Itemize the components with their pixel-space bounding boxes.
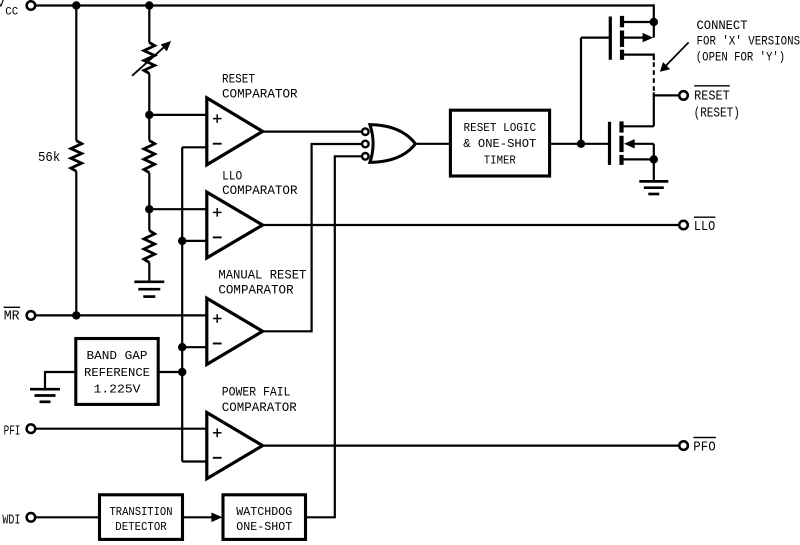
svg-text:56k: 56k [38,150,60,166]
svg-text:POWER FAIL: POWER FAIL [222,384,291,399]
wire LLO- stub [182,240,207,242]
svg-text:CONNECT: CONNECT [697,18,748,33]
junction LLO- [178,237,186,245]
gate U5 input bubble 2 [362,141,369,148]
svg-text:MANUAL RESET: MANUAL RESET [218,267,306,282]
wire tap1 to RESET+ [149,114,207,116]
plus sign LLO comparator [213,211,222,213]
annotation arrow [664,42,689,67]
wire RESET output [654,92,679,95]
wire tap2 to LLO+ [149,208,207,210]
block band gap reference [76,339,158,405]
resistor 56k [71,141,82,172]
terminal VCC [27,1,36,10]
wire timer output [550,143,582,145]
wire R3 to ground [148,262,150,281]
wire bandgap output [158,371,182,373]
svg-text:WATCHDOG: WATCHDOG [236,505,292,519]
terminal RESET [679,91,688,100]
wire divider top [148,4,150,42]
plus sign POWER FAIL comparator [213,432,222,434]
wire LLO output [263,224,680,226]
transistor Q1 drain lead [624,21,654,23]
svg-text:RESET LOGIC: RESET LOGIC [464,121,537,135]
wire MR- stub [182,346,207,348]
minus sign POWER FAIL comparator [213,457,222,459]
wire gate output [415,143,449,145]
wire MANUAL RESET output [263,144,362,331]
junction rail-56k [72,1,80,9]
junction MR- [178,343,186,351]
transistor Q2 source lead [624,158,654,160]
terminal MR [27,311,36,320]
minus sign RESET comparator [213,143,222,145]
label PFO overline [693,437,716,439]
wire watchdog output [306,156,362,517]
ground bandgap [30,388,60,391]
wire WDI [36,516,100,518]
wire R2 to tap2 [148,173,150,231]
terminal PFO [679,441,688,450]
svg-text:REFERENCE: REFERENCE [84,366,150,380]
wire RESET node to Q2 drain [653,95,655,126]
svg-text:BAND GAP: BAND GAP [87,349,148,363]
arrow of variable resistor [132,46,166,76]
junction tap1 [145,111,153,119]
label MR overline [4,306,20,308]
wire RESET comparator to gate [263,131,362,133]
op-amp LLO comparator [207,192,263,258]
junction tap2 [145,205,153,213]
svg-text:COMPARATOR: COMPARATOR [222,400,297,415]
transistor Q2 NMOS channel bar [619,121,623,132]
label LLO overline [694,216,715,218]
dashed link for X versions [653,62,655,92]
svg-text:V: V [0,0,5,12]
ground divider [134,280,164,283]
transistor Q2 drain lead [624,125,654,127]
wire gate drive vertical [580,38,582,144]
transistor Q1 body lead with arrow [624,36,646,38]
svg-text:CC: CC [5,6,19,18]
svg-text:COMPARATOR: COMPARATOR [222,183,298,198]
svg-text:LLO: LLO [694,219,715,235]
svg-text:PFO: PFO [693,439,715,455]
svg-text:1.225V: 1.225V [94,383,142,397]
svg-text:COMPARATOR: COMPARATOR [222,87,298,102]
wire PFI [36,428,207,430]
wire MR [36,314,207,316]
plus sign RESET comparator [213,118,222,120]
plus sign MANUAL RESET comparator [213,318,222,320]
resistor R3 [144,231,155,263]
svg-text:COMPARATOR: COMPARATOR [218,283,293,298]
op-amp POWER FAIL comparator [207,413,263,479]
wire Q2 source to ground [653,159,655,181]
gate U5 input bubble 1 [362,128,369,135]
wire NMOS gate lead [581,143,610,145]
wire R1 to tap1 [148,74,150,141]
resistor R2 [144,141,155,173]
op-amp RESET comparator [207,98,263,165]
junction Q2 source [650,155,658,163]
terminal WDI [27,513,36,522]
transistor Q2 body lead with arrow [631,143,654,145]
svg-text:LLO: LLO [222,168,242,183]
wire PMOS gate lead [581,36,610,38]
wire VCC to Q1 [653,4,655,37]
svg-text:TIMER: TIMER [484,154,517,168]
terminal PFI [27,424,36,433]
gate U5 input bubble 3 [362,153,369,160]
minus sign LLO comparator [213,236,222,238]
transistor Q1 PMOS gate bar [609,17,612,60]
wire RESET- stub [182,146,207,148]
minus sign MANUAL RESET comparator [213,343,222,345]
junction rail-divider [145,1,153,9]
wire 56k branch lower [75,171,77,315]
svg-text:& ONE-SHOT: & ONE-SHOT [463,137,536,151]
transistor Q1 PMOS channel bar [620,16,624,27]
junction bandgap-bus [178,368,186,376]
block reset logic & one-shot timer [450,110,549,176]
wire PFI- stub [182,460,207,462]
op-amp MANUAL RESET comparator [207,298,263,364]
terminal LLO [679,221,688,230]
block transition detector [100,495,183,540]
svg-text:WDI: WDI [2,512,20,528]
svg-text:PFI: PFI [4,424,21,440]
junction MR-56k [72,311,80,319]
wire VCC rail [36,4,654,6]
gate U5 (3-input NOR) body [370,125,416,163]
wire PFO [263,445,680,447]
transistor Q2 NMOS gate bar [608,122,611,165]
junction gate drive [577,140,585,148]
ground MOSFET [639,180,668,183]
junction Q1 drain [650,18,658,26]
svg-text:MR: MR [4,309,20,325]
svg-text:(RESET): (RESET) [694,106,740,122]
wire detector to watchdog [183,516,214,518]
svg-text:(OPEN FOR 'Y'): (OPEN FOR 'Y') [696,49,785,64]
svg-text:RESET: RESET [694,89,730,105]
wire reference bus [181,147,183,461]
wire 56k branch upper [75,4,77,140]
svg-text:DETECTOR: DETECTOR [115,520,167,534]
svg-text:TRANSITION: TRANSITION [110,505,173,519]
resistor R1 variable [144,43,155,74]
svg-text:ONE-SHOT: ONE-SHOT [236,520,292,534]
wire Q2 body to source [653,144,655,160]
wire bandgap ground [45,372,76,389]
label RESET overline [694,85,730,87]
svg-text:RESET: RESET [222,71,255,86]
transistor Q1 source lead [624,55,654,61]
svg-text:FOR 'X' VERSIONS: FOR 'X' VERSIONS [697,34,800,49]
block watchdog one-shot [223,495,306,540]
